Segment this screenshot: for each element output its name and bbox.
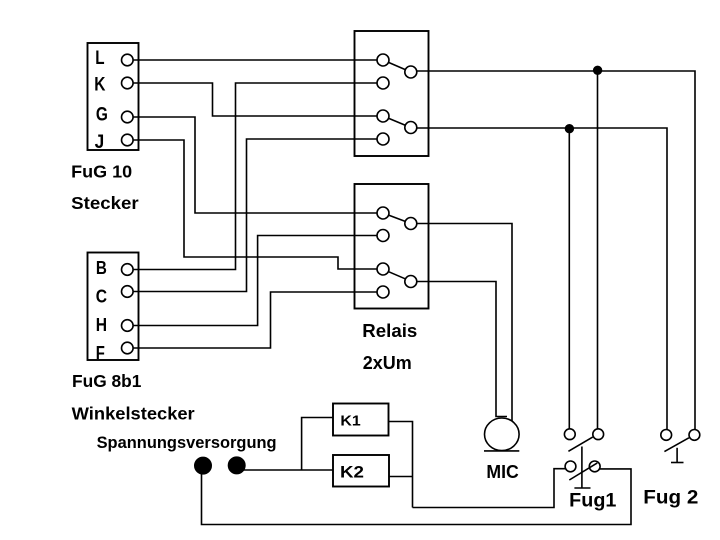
label Winkelstecker (72, 403, 195, 423)
svg-text:Stecker: Stecker (71, 193, 138, 213)
switch Fug1 lever b (569, 463, 597, 480)
pin L (95, 48, 133, 69)
supply terminal 1 (195, 457, 211, 473)
pin K (94, 75, 133, 96)
svg-text:K1: K1 (340, 412, 360, 429)
relay 1 contact a2 (377, 77, 389, 89)
relay 2 contact b1 (377, 263, 389, 275)
switch Fug2 lever (664, 438, 689, 452)
svg-text:F: F (96, 342, 105, 363)
switch Fug1 bottom left contact (565, 461, 576, 472)
svg-text:2xUm: 2xUm (363, 352, 412, 373)
wire C to relay1 contact b2 (133, 139, 377, 292)
wire K2 output (389, 476, 413, 478)
wire branch to K1 (302, 418, 333, 471)
label Stecker (71, 193, 138, 213)
switch Fug1 bottom right contact (589, 461, 600, 472)
switch Fug2 right contact (689, 430, 700, 441)
pin G (96, 105, 133, 126)
svg-text:K2: K2 (340, 463, 364, 481)
wire G to relay2 contact a1 (133, 117, 377, 213)
svg-text:G: G (96, 105, 108, 126)
label Relais (362, 320, 417, 341)
wire supply terminal 1 to Fug1 bottom right contact (202, 469, 632, 525)
svg-text:Relais: Relais (362, 320, 417, 341)
relay 1 contact b2 (377, 133, 389, 145)
label MIC (486, 461, 518, 482)
svg-text:Fug1: Fug1 (569, 490, 617, 511)
pin C (96, 285, 133, 306)
svg-text:Winkelstecker: Winkelstecker (72, 403, 195, 423)
relay 1 pole a (405, 66, 417, 78)
pin F (96, 342, 133, 363)
label Fug 2 (643, 488, 698, 509)
relay 1 lever b (389, 118, 406, 125)
wire node B to Fug1 top left contact (568, 128, 570, 429)
svg-text:Spannungsversorgung: Spannungsversorgung (97, 433, 277, 452)
connector box FuG 10 Stecker (88, 43, 139, 150)
wire node A to Fug1 top right contact (597, 71, 599, 429)
wire F to relay2 contact b2 (133, 292, 377, 348)
svg-text:FuG 8b1: FuG 8b1 (72, 371, 142, 391)
relay 2 pole b (405, 276, 417, 288)
label FuG 8b1 (72, 371, 142, 391)
relay 1 lever a (389, 62, 406, 69)
relay 2 pole a (405, 218, 417, 230)
connector box FuG 8b1 Winkelstecker (88, 253, 139, 361)
relay contact block 2 box (355, 184, 429, 309)
label Spannungsversorgung (97, 433, 277, 452)
svg-text:H: H (96, 314, 107, 335)
switch Fug1 top right contact (593, 429, 604, 440)
svg-text:L: L (95, 48, 105, 69)
relay 1 contact a1 (377, 54, 389, 66)
label K2 (340, 463, 364, 481)
wire relay1 pole a to Fug2 right contact (417, 71, 695, 430)
switch Fug2 link bar (671, 448, 684, 463)
wire relay2 pole a to MIC (417, 224, 512, 422)
pin B (96, 257, 133, 278)
relay coil K2 box (333, 455, 389, 487)
pin J (95, 132, 134, 153)
svg-text:MIC: MIC (486, 461, 518, 482)
svg-text:Fug 2: Fug 2 (643, 488, 698, 509)
switch Fug1 lever a (568, 437, 592, 451)
wire relay2 pole b to MIC (417, 282, 507, 417)
svg-text:C: C (96, 285, 107, 306)
switch Fug2 left contact (661, 430, 672, 441)
wire L to relay1 contact a1 (133, 59, 377, 61)
svg-text:K: K (94, 75, 105, 96)
label K1 (340, 412, 360, 429)
svg-text:B: B (96, 257, 107, 278)
relay 2 lever b (389, 272, 406, 279)
wire K outputs to Fug1 bottom left contact (413, 469, 566, 508)
junction dot node A (594, 66, 602, 74)
label 2xUm (363, 352, 412, 373)
switch Fug1 link bar (574, 447, 590, 489)
wire B to relay1 contact a2 (133, 83, 377, 270)
label FuG 10 (71, 161, 132, 181)
label Fug1 (569, 490, 617, 511)
wire supply terminal 2 to K2 (243, 469, 333, 471)
wire K to relay1 contact b1 (133, 83, 377, 116)
wire relay1 pole b to Fug2 left contact (417, 128, 667, 430)
svg-text:J: J (95, 132, 105, 153)
relay 2 lever a (389, 215, 406, 221)
svg-text:FuG 10: FuG 10 (71, 161, 132, 181)
wire H to relay2 contact a2 (133, 236, 377, 326)
relay coil K1 box (333, 404, 389, 436)
supply terminal 2 (229, 457, 245, 473)
relay 2 contact b2 (377, 286, 389, 298)
relay 2 contact a1 (377, 207, 389, 219)
relay 1 contact b1 (377, 110, 389, 122)
relay 2 contact a2 (377, 230, 389, 242)
relay 1 pole b (405, 122, 417, 134)
wire K1 output (389, 422, 413, 508)
switch Fug1 top left contact (564, 429, 575, 440)
pin H (96, 314, 133, 335)
relay contact block 1 box (355, 31, 429, 156)
wire J to relay2 contact b1 (133, 140, 377, 269)
junction dot node B (566, 125, 574, 133)
microphone MIC (484, 418, 519, 451)
